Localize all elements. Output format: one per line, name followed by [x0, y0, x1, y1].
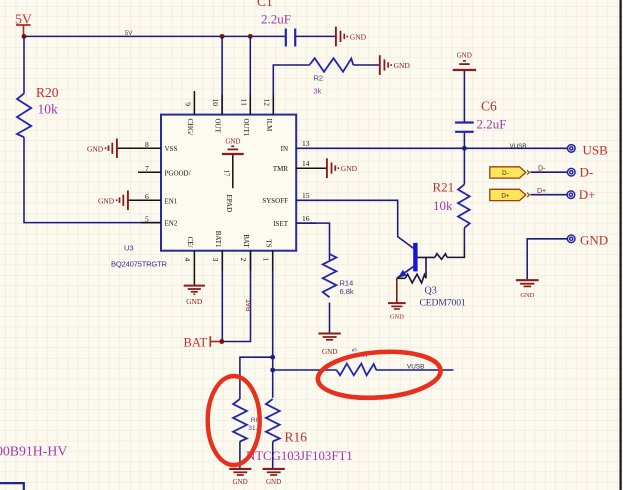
svg-text:GND: GND: [322, 348, 338, 356]
pin 4 CE/: [183, 237, 195, 285]
svg-text:C1: C1: [257, 0, 273, 9]
svg-text:8: 8: [145, 140, 149, 149]
wire Q3 emitter to ground: [396, 278, 398, 302]
pin 7 PGOOD/: [138, 164, 191, 177]
svg-text:C6: C6: [481, 99, 497, 114]
junction TS/R6 link node: [270, 355, 275, 360]
wire VUSB net right segment: [376, 369, 453, 371]
svg-text:4: 4: [183, 258, 192, 262]
port BAT: [184, 335, 220, 349]
svg-text:CE/: CE/: [186, 237, 194, 248]
svg-text:ISET: ISET: [273, 220, 289, 228]
svg-text:BAT1: BAT1: [214, 231, 222, 248]
ground (below GND connector): [516, 280, 539, 299]
resistor R16: [266, 399, 280, 442]
transistor Q3: [397, 243, 435, 283]
svg-text:VUSB: VUSB: [407, 363, 424, 370]
junction OUT pin10: [220, 34, 225, 39]
wire pin11 drop: [249, 36, 251, 114]
pin 14 TMR: [273, 159, 310, 173]
harness entry D- (yellow tag): [490, 167, 530, 178]
wire 5V to R20: [23, 36, 25, 93]
wire C1 to ground: [295, 35, 336, 37]
resistor (Q3 collector, unlabeled): [435, 254, 447, 260]
svg-text:D-: D-: [502, 170, 509, 177]
svg-text:GND: GND: [266, 478, 281, 486]
svg-text:D-: D-: [580, 165, 594, 180]
svg-text:3k: 3k: [314, 87, 322, 96]
svg-text:2: 2: [239, 258, 248, 262]
wire R6 to ground: [239, 442, 241, 469]
pin 2 BAT: [222, 234, 250, 341]
pin 12 ILM: [262, 99, 273, 133]
junction BAT node: [219, 339, 224, 344]
pin 8 VSS: [117, 140, 177, 153]
svg-text:NTCG103JF103FT1: NTCG103JF103FT1: [246, 449, 353, 463]
svg-text:10: 10: [211, 99, 220, 107]
svg-text:D+: D+: [501, 192, 510, 199]
svg-text:5V: 5V: [125, 30, 133, 37]
svg-text:GND: GND: [394, 61, 411, 70]
resistor R21: [458, 184, 470, 227]
svg-text:11: 11: [239, 99, 248, 106]
wire GND connector to ground: [527, 239, 567, 279]
svg-text:TMR: TMR: [273, 165, 289, 173]
svg-text:EN1: EN1: [165, 197, 178, 205]
svg-text:R21: R21: [433, 180, 455, 195]
svg-text:5: 5: [352, 348, 359, 352]
pin 3 BAT1: [211, 231, 222, 342]
pin 5 EN2: [145, 214, 178, 227]
svg-text:USB: USB: [583, 143, 609, 158]
ground (below R6): [229, 469, 251, 486]
svg-text:BAT: BAT: [184, 335, 208, 349]
svg-text:R16: R16: [285, 429, 308, 444]
harness entry D+ (yellow tag): [490, 189, 530, 200]
wire 5V rail: [24, 35, 286, 37]
svg-text:5V: 5V: [15, 11, 32, 26]
wire R16 to ground: [272, 442, 274, 469]
svg-text:GND: GND: [580, 233, 608, 248]
wire ISET to R14: [296, 223, 329, 260]
svg-text:IN: IN: [281, 145, 288, 153]
pin 15 SYSOFF: [262, 191, 309, 205]
svg-text:SYSOFF: SYSOFF: [262, 197, 288, 205]
svg-text:7: 7: [145, 164, 149, 173]
ground (EPAD, inside IC): [222, 138, 244, 155]
pin 17 EPAD with internal ground: [223, 155, 233, 212]
sheet box bottom-left corner: [0, 483, 24, 490]
wire SYSOFF to Q3 base: [296, 200, 413, 248]
junction TS/VUSB node: [270, 368, 275, 373]
svg-text:BQ24075TRGTR: BQ24075TRGTR: [111, 260, 168, 269]
svg-text:00B91H-HV: 00B91H-HV: [0, 444, 67, 459]
ground (right of R2): [380, 55, 411, 75]
svg-text:VUSB: VUSB: [510, 143, 527, 150]
pin 16 ISET: [273, 214, 310, 228]
wire D-: [531, 171, 568, 173]
sheet border right edge: [619, 0, 621, 490]
ground (right of C1): [336, 27, 367, 47]
svg-text:OUT1: OUT1: [242, 119, 250, 137]
connector pad GND: [567, 233, 608, 248]
svg-text:VSS: VSS: [165, 145, 178, 153]
svg-text:R20: R20: [36, 85, 59, 100]
svg-text:Q3: Q3: [425, 286, 437, 297]
svg-text:D-: D-: [538, 165, 546, 172]
svg-text:10k: 10k: [433, 198, 453, 213]
wire pin12 to R2: [273, 65, 309, 115]
svg-text:BAT: BAT: [246, 299, 253, 311]
resistor R20: [17, 94, 31, 138]
junction OUT1 pin11: [248, 34, 253, 39]
pin 11 OUT1: [239, 99, 250, 137]
wire R2 to ground: [353, 64, 380, 66]
ground (VSS pin 8): [87, 139, 117, 159]
junction C6/R21 node: [462, 146, 467, 151]
svg-text:R2: R2: [314, 74, 324, 83]
svg-text:EN2: EN2: [165, 220, 178, 228]
wire D+: [531, 194, 568, 196]
pin 10 OUT: [211, 99, 222, 134]
wire VUSB net left segment: [273, 369, 337, 371]
wire ground to C6: [463, 71, 465, 122]
pin 14 wire to ground: [296, 167, 327, 169]
svg-text:9: 9: [183, 102, 192, 106]
junction 5V/R20: [22, 34, 27, 39]
connector pad D-: [568, 165, 594, 180]
svg-text:CEDM7001: CEDM7001: [420, 298, 466, 309]
svg-text:1: 1: [262, 258, 271, 262]
svg-text:GND: GND: [98, 197, 115, 206]
IC U3 body: [161, 115, 296, 251]
ground (EN1 pin 6): [98, 191, 128, 211]
svg-text:OUT: OUT: [214, 119, 222, 134]
svg-text:2.2uF: 2.2uF: [261, 12, 291, 27]
svg-text:ILM: ILM: [265, 119, 273, 133]
highlight ellipse around R6: [208, 376, 260, 465]
svg-text:14: 14: [302, 159, 310, 168]
ground (above C6, flipped): [453, 52, 476, 71]
svg-text:U3: U3: [124, 244, 134, 253]
capacitor C6: [455, 123, 474, 132]
svg-text:D+: D+: [537, 188, 546, 195]
resistor R6: [233, 399, 247, 442]
wire pin10 drop: [221, 36, 223, 114]
svg-text:2.2uF: 2.2uF: [477, 116, 507, 131]
svg-text:15: 15: [302, 191, 310, 200]
ground (Q3 emitter): [388, 303, 406, 320]
svg-text:TS: TS: [265, 239, 273, 247]
resistor R2: [309, 58, 353, 72]
svg-text:6.8k: 6.8k: [340, 287, 354, 296]
ground (below R16): [263, 469, 285, 486]
pin 9 CHG/: [183, 91, 194, 135]
svg-text:3: 3: [211, 258, 220, 262]
connector pad USB: [568, 143, 609, 158]
wire R14 to ground: [329, 303, 331, 333]
pin 6 EN1: [128, 192, 178, 205]
pin stubs (component-side black pin leads): [141, 95, 316, 271]
connector pad D+: [567, 187, 595, 202]
wire R20 to EN2: [24, 137, 161, 222]
svg-text:PGOOD/: PGOOD/: [165, 169, 191, 177]
svg-text:D+: D+: [579, 187, 596, 202]
svg-text:BAT: BAT: [242, 234, 250, 248]
wire R21 to collector node: [463, 228, 465, 246]
svg-text:GND: GND: [520, 292, 534, 299]
ground (CE/ pin 4): [184, 286, 205, 306]
svg-text:6: 6: [145, 192, 149, 201]
pin 1 TS: [262, 239, 273, 397]
svg-text:GND: GND: [341, 164, 358, 173]
wire IN net to R21: [463, 148, 465, 184]
svg-text:GND: GND: [233, 478, 248, 486]
svg-text:EPAD: EPAD: [225, 195, 233, 213]
pin 13 IN: [281, 139, 310, 153]
resistor R5 (circled): [337, 364, 377, 376]
svg-text:10k: 10k: [38, 102, 59, 117]
ground (TMR pin 14): [327, 158, 358, 178]
svg-text:GND: GND: [350, 33, 367, 42]
ground (below R14): [318, 334, 340, 357]
svg-text:12: 12: [262, 99, 271, 107]
svg-text:GND: GND: [186, 297, 203, 306]
svg-text:GND: GND: [225, 138, 240, 146]
svg-text:CHG/: CHG/: [186, 119, 194, 136]
svg-text:GND: GND: [457, 52, 472, 60]
svg-text:GND: GND: [87, 145, 104, 154]
wire IN net (pin13 to USB connector): [296, 147, 567, 149]
svg-text:17: 17: [223, 170, 231, 178]
power port 5V: [15, 11, 32, 36]
wire C6 to IN net: [463, 133, 465, 149]
highlight ellipse around R5: [316, 348, 442, 402]
capacitor C1: [286, 29, 295, 47]
resistor R14: [323, 254, 337, 297]
wire TS link to R6: [240, 357, 273, 399]
svg-text:GND: GND: [390, 313, 404, 320]
svg-text:13: 13: [302, 139, 310, 148]
svg-text:16: 16: [302, 214, 310, 223]
